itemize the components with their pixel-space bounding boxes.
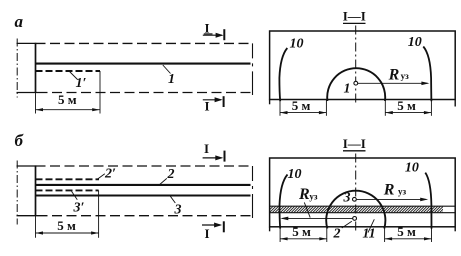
layer band bottom line panel b — [270, 212, 456, 214]
line 2' (dashed scribe line) — [36, 178, 100, 180]
dim left panel b section : arrows — [280, 237, 288, 240]
line 1 (solid scribe line) — [36, 63, 251, 65]
wall stub left below rect panel a — [269, 100, 271, 105]
svg-text:3: 3 — [174, 203, 182, 218]
wall bottom edge panel a — [17, 92, 38, 94]
R arrow left shaft panel b — [282, 217, 353, 219]
dim arrow left panel a — [36, 108, 44, 111]
dim left panel b section : line — [280, 238, 327, 240]
top boundary dashed line panel b — [36, 165, 253, 167]
line 3 (solid scribe line) — [36, 194, 251, 196]
wall extension line for dimension panel a — [35, 93, 37, 114]
centerline vertical panel b section — [355, 154, 357, 232]
svg-text:1: 1 — [344, 81, 351, 96]
svg-text:10: 10 — [290, 37, 304, 52]
svg-text:2′: 2′ — [104, 166, 116, 181]
wall stub left below rect panel b — [269, 227, 271, 232]
svg-text:I: I — [204, 226, 209, 241]
svg-text:5 м: 5 м — [397, 224, 416, 239]
bottom boundary dashed line panel b — [38, 215, 253, 217]
section rectangle panel b — [270, 158, 456, 227]
leader for label 3' — [72, 191, 78, 200]
extension line at end of 3' — [98, 190, 100, 237]
line 3' (dashed scribe line) — [36, 189, 99, 191]
section mark I bottom panel b : shaft — [202, 224, 220, 226]
layer band top line panel b — [270, 205, 456, 207]
leader for label 2 — [159, 178, 167, 185]
arc 10 right panel a — [423, 47, 431, 102]
svg-text:5 м: 5 м — [57, 218, 76, 233]
extension line at end of 1' — [99, 71, 101, 114]
dim right panel a section : line — [385, 112, 431, 114]
arc 10 left panel b — [280, 175, 288, 229]
svg-text:R: R — [298, 186, 310, 203]
wall stub right below rect panel b — [454, 227, 456, 232]
svg-text:I—I: I—I — [343, 9, 366, 24]
dim arrow left panel b — [36, 231, 44, 234]
section mark I bottom panel a : shaft — [203, 99, 221, 101]
source point 1 (open dot) panel a — [354, 81, 358, 85]
svg-text:I: I — [204, 99, 209, 114]
R arrow right shaft panel b — [357, 198, 427, 200]
centerline vertical panel a section — [355, 26, 357, 104]
dim right panel b section : line — [385, 238, 432, 240]
point 2 (open dot lower) panel b — [353, 217, 357, 221]
arc 10 left panel a — [279, 48, 287, 101]
svg-text:уз: уз — [398, 187, 407, 197]
leader label 11 section panel b — [368, 219, 374, 232]
svg-text:уз: уз — [309, 191, 318, 201]
R arrow left head panel b — [280, 217, 288, 221]
section mark I bottom panel b : tick — [223, 221, 225, 232]
svg-text:10: 10 — [405, 160, 419, 175]
right boundary dashed vertical panel a — [252, 43, 254, 95]
dim right panel b section : arrows — [385, 237, 393, 240]
leader for label 2' — [98, 174, 105, 179]
section mark I bottom panel a : arrowhead — [215, 97, 223, 102]
wall top edge panel a — [17, 42, 36, 44]
svg-text:2: 2 — [167, 167, 175, 182]
dim right panel b section : ext lines — [384, 227, 386, 242]
centerline (dash-dot) left edge panel b — [16, 161, 18, 225]
leader for label 1 — [163, 65, 171, 74]
svg-text:I: I — [204, 141, 209, 156]
wall face vertical panel b — [35, 165, 37, 215]
section rectangle panel a — [270, 31, 456, 100]
header underline panel b — [343, 150, 366, 152]
svg-text:10: 10 — [408, 35, 422, 50]
dome (semicircular zone) panel a — [327, 68, 385, 101]
svg-text:1′: 1′ — [76, 76, 87, 91]
svg-text:I: I — [204, 21, 209, 36]
leader for label 1' — [70, 72, 78, 80]
dome (semicircular zone) panel b — [326, 191, 385, 229]
R arrow head panel a — [421, 82, 429, 86]
dim arrow right panel b — [91, 231, 99, 234]
section mark I top panel a : arrowhead — [216, 33, 224, 38]
arc 10 right panel b — [425, 173, 431, 229]
svg-text:5 м: 5 м — [292, 224, 311, 239]
point 3 (open dot upper) panel b — [353, 197, 357, 201]
svg-text:2: 2 — [333, 227, 341, 242]
svg-text:5 м: 5 м — [58, 92, 77, 107]
leader for label 3 — [170, 196, 175, 203]
dim left panel a section : line — [280, 112, 326, 114]
section mark I top panel b : arrowhead — [215, 155, 223, 160]
dimension line 5m panel a left view — [36, 109, 100, 111]
dim arrow right panel a — [92, 108, 100, 111]
centerline (dash-dot) left edge panel a — [16, 39, 18, 98]
header underline panel a — [343, 22, 366, 24]
svg-text:R: R — [383, 182, 395, 199]
top boundary dashed line panel a — [36, 42, 253, 44]
section mark I top panel b : tick — [224, 151, 226, 162]
leader label 2 section panel b — [342, 221, 352, 228]
svg-text:1: 1 — [168, 72, 175, 87]
right boundary dashed vertical panel b — [252, 166, 254, 218]
section mark I bottom panel a : tick — [223, 96, 225, 107]
svg-text:5 м: 5 м — [292, 98, 311, 113]
svg-text:11: 11 — [362, 227, 375, 242]
leader from R left label to arrow panel b — [304, 202, 310, 217]
svg-text:3: 3 — [343, 191, 351, 206]
dimension line 5m panel b left view — [36, 232, 99, 234]
section mark I top panel a : tick — [223, 29, 225, 40]
section mark I top panel b : shaft — [203, 157, 222, 159]
dim left panel a section : ext lines — [279, 101, 281, 116]
section mark I bottom panel b : arrowhead — [214, 223, 222, 228]
svg-text:10: 10 — [288, 167, 302, 182]
dim left panel b section : ext lines — [279, 228, 281, 242]
svg-text:уз: уз — [401, 71, 410, 81]
svg-text:5 м: 5 м — [397, 98, 416, 113]
R arrow right head panel b — [420, 198, 428, 202]
dim left panel a section : arrows — [280, 111, 288, 114]
wall extension line for dimension panel b — [35, 216, 37, 238]
dim right panel a section : arrows — [385, 111, 393, 114]
R arrow shaft panel a — [358, 82, 428, 84]
wall bottom edge panel b — [17, 215, 38, 217]
section mark I top panel a : letter underline — [204, 33, 213, 35]
dim right panel a section : ext lines — [384, 100, 386, 116]
wall face vertical panel a — [35, 43, 37, 93]
wall stub right below rect panel a — [454, 100, 456, 107]
svg-text:3′: 3′ — [73, 201, 85, 216]
svg-text:R: R — [388, 67, 400, 84]
svg-text:I—I: I—I — [343, 136, 366, 151]
wall top edge panel b — [17, 165, 36, 167]
svg-text:а: а — [15, 12, 24, 31]
hatched layer band panel b — [264, 206, 449, 213]
bottom boundary dashed line panel a — [38, 92, 253, 94]
line 1' (dashed scribe line) — [36, 70, 101, 72]
section mark I top panel a : shaft — [203, 34, 222, 36]
line 2 (solid scribe line) — [36, 184, 251, 186]
